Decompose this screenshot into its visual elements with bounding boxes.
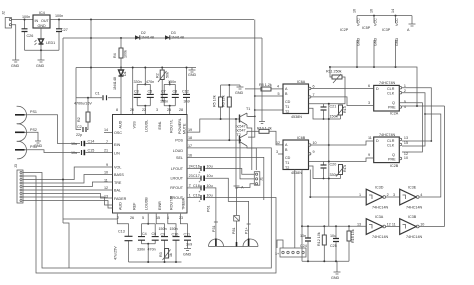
capacitor C16 <box>187 165 254 175</box>
wire IC3D to IC3E <box>386 196 400 198</box>
wire J3 p8 <box>23 197 113 205</box>
svg-text:1: 1 <box>359 193 361 197</box>
svg-text:GND: GND <box>36 64 45 68</box>
svg-text:R10 1.2k: R10 1.2k <box>257 127 272 131</box>
svg-text:2: 2 <box>189 184 191 188</box>
svg-text:10: 10 <box>104 171 108 175</box>
svg-text:14: 14 <box>104 128 108 132</box>
svg-text:C16: C16 <box>193 165 200 169</box>
svg-text:IC2P: IC2P <box>340 28 349 32</box>
svg-text:T2: T2 <box>285 110 289 114</box>
svg-text:IC3E: IC3E <box>408 186 417 190</box>
svg-text:C3: C3 <box>134 90 139 94</box>
svg-text:IC3D: IC3D <box>375 186 384 190</box>
power pin IC5P <box>362 16 378 67</box>
svg-text:BASS: BASS <box>114 173 124 177</box>
svg-text:26: 26 <box>130 216 134 220</box>
svg-text:PS2: PS2 <box>30 128 37 132</box>
svg-text:ROUT/L: ROUT/L <box>170 119 174 133</box>
svg-text:C6: C6 <box>152 232 157 236</box>
svg-text:5: 5 <box>404 100 406 104</box>
svg-text:3: 3 <box>156 108 158 112</box>
svg-text:OUT: OUT <box>41 19 50 23</box>
svg-text:R2: R2 <box>77 117 81 122</box>
svg-text:9: 9 <box>368 153 370 157</box>
svg-text:4: 4 <box>420 193 422 197</box>
svg-text:6: 6 <box>368 84 370 88</box>
svg-text:150n: 150n <box>168 80 176 84</box>
svg-text:VCC: VCC <box>395 18 399 26</box>
svg-text:16: 16 <box>353 9 357 13</box>
svg-text:R8 1.2k: R8 1.2k <box>259 83 272 87</box>
power pin IC3P <box>382 16 399 67</box>
capacitor C17 <box>187 174 249 224</box>
svg-text:C11: C11 <box>184 232 191 236</box>
pin P31 <box>212 222 218 246</box>
wire jack3 to C15 <box>28 150 80 153</box>
ground GND (T area) <box>235 85 244 95</box>
capacitor pair C7 C8 loop <box>160 80 179 114</box>
svg-text:IN: IN <box>35 19 39 23</box>
svg-text:VCC: VCC <box>374 18 378 26</box>
svg-text:10u: 10u <box>207 184 213 188</box>
svg-text:LED1: LED1 <box>46 41 55 45</box>
monostable IC6A <box>283 80 315 119</box>
diode D3 <box>165 31 184 40</box>
svg-text:150n: 150n <box>170 227 178 231</box>
svg-text:8: 8 <box>116 108 118 112</box>
svg-text:6: 6 <box>313 85 315 89</box>
svg-text:4700u/16V: 4700u/16V <box>74 102 92 106</box>
IC left pin labels <box>114 131 127 201</box>
IC top pin labels rotated <box>119 118 183 134</box>
svg-text:22: 22 <box>142 108 146 112</box>
svg-text:17: 17 <box>188 144 192 148</box>
svg-text:CLR: CLR <box>387 139 395 143</box>
svg-text:AUD: AUD <box>119 202 123 210</box>
wire rail1 drop <box>248 20 255 138</box>
ground (A) top right <box>407 16 416 32</box>
wire rail3 (cap rail) <box>76 67 196 69</box>
svg-text:D1: D1 <box>123 71 127 76</box>
svg-text:C17: C17 <box>193 174 200 178</box>
wire into IC3D <box>310 196 366 198</box>
svg-text:R4: R4 <box>113 53 117 58</box>
svg-text:1N4148: 1N4148 <box>113 77 117 90</box>
wire v327 <box>328 104 330 226</box>
svg-text:REF: REF <box>133 202 137 210</box>
wire IC6A B input <box>255 95 283 97</box>
svg-text:LOUD: LOUD <box>173 149 184 153</box>
capacitor C21 <box>309 104 342 120</box>
svg-text:VCC: VCC <box>357 18 361 26</box>
svg-text:C24: C24 <box>300 244 307 248</box>
wires 4538 bottom drops <box>295 170 311 249</box>
svg-text:470n: 470n <box>146 80 154 84</box>
svg-text:C20: C20 <box>330 163 337 167</box>
svg-text:LOUDL: LOUDL <box>145 120 149 132</box>
svg-text:470n: 470n <box>148 248 156 252</box>
wire VSS drop <box>132 68 134 115</box>
svg-text:12: 12 <box>276 141 280 145</box>
trimmer R14 <box>336 165 347 179</box>
svg-text:50k: 50k <box>166 72 170 78</box>
capacitor C9 <box>156 214 168 262</box>
resistor R2 <box>77 97 90 130</box>
svg-text:C25: C25 <box>330 244 337 248</box>
svg-text:Q: Q <box>392 101 395 105</box>
wire IC6B q to IC2B <box>311 141 374 145</box>
svg-text:9: 9 <box>313 150 315 154</box>
svg-text:IC2A: IC2A <box>390 112 399 116</box>
svg-text:C7: C7 <box>161 90 166 94</box>
svg-text:C10: C10 <box>172 232 179 236</box>
svg-text:4538N: 4538N <box>291 115 302 119</box>
svg-text:VSS: VSS <box>133 121 137 129</box>
svg-text:CD: CD <box>285 100 291 104</box>
svg-text:GND: GND <box>183 253 192 257</box>
capacitor C14 <box>71 140 112 147</box>
svg-text:1N4148: 1N4148 <box>171 35 184 39</box>
svg-text:10u: 10u <box>71 151 77 155</box>
capacitor pair C4 C6 loop <box>137 214 159 262</box>
svg-text:C8: C8 <box>173 90 178 94</box>
ground GND (LED1) <box>36 58 45 68</box>
pin P1+ <box>245 224 251 246</box>
diode D1 <box>113 68 127 115</box>
inverter IC3D <box>359 186 395 210</box>
capacitor C18 <box>187 184 216 222</box>
svg-text:R6 10k: R6 10k <box>221 95 225 107</box>
svg-text:11: 11 <box>368 136 372 140</box>
wire cap bottom bus <box>129 261 182 263</box>
svg-text:23: 23 <box>179 216 183 220</box>
svg-text:3: 3 <box>393 193 395 197</box>
svg-text:P31: P31 <box>212 225 216 232</box>
wire J4 left loop <box>277 240 283 248</box>
svg-text:16: 16 <box>188 153 192 157</box>
svg-text:9: 9 <box>106 163 108 167</box>
speaker left <box>209 239 259 246</box>
svg-text:330n: 330n <box>137 248 145 252</box>
svg-text:BAL: BAL <box>114 189 121 193</box>
svg-text:2: 2 <box>387 193 389 197</box>
svg-text:C14: C14 <box>88 140 95 144</box>
IC bottom pin labels rotated <box>119 196 186 210</box>
svg-text:5: 5 <box>278 92 280 96</box>
svg-text:15: 15 <box>156 216 160 220</box>
wire J3 p1 loop <box>23 148 271 268</box>
svg-text:GND: GND <box>374 37 378 46</box>
svg-text:ROUT/R: ROUT/R <box>170 196 174 210</box>
wire IC3B feedback loop <box>444 106 446 227</box>
wire J3 p3 <box>23 167 113 180</box>
svg-text:18: 18 <box>188 136 192 140</box>
resistor R8 <box>245 83 283 91</box>
transistor T1 <box>240 107 255 170</box>
svg-text:21: 21 <box>104 149 108 153</box>
svg-text:19: 19 <box>188 128 192 132</box>
svg-text:20: 20 <box>130 108 134 112</box>
svg-text:3n9: 3n9 <box>186 243 192 247</box>
inverter IC3E <box>400 186 423 210</box>
svg-text:C4: C4 <box>142 232 147 236</box>
svg-text:IC6B: IC6B <box>297 136 306 140</box>
svg-text:FADER: FADER <box>114 197 127 201</box>
capacitor C11 <box>180 214 192 247</box>
capacitor C2 <box>76 125 86 137</box>
svg-text:PRE: PRE <box>388 158 396 162</box>
capacitor pair C3 C5 loop <box>134 67 155 115</box>
wire pos pin18 to T2 base <box>187 139 240 141</box>
svg-text:TREBR: TREBR <box>182 197 186 210</box>
svg-text:LFOUT: LFOUT <box>171 167 184 171</box>
wire J3 p7 <box>23 194 113 199</box>
svg-text:1k: 1k <box>169 253 173 257</box>
flipflop IC2B <box>368 133 408 168</box>
svg-text:GND: GND <box>235 91 244 95</box>
power pin IC2P <box>340 16 361 67</box>
svg-text:100n: 100n <box>55 14 63 18</box>
svg-text:VOL: VOL <box>114 166 121 170</box>
svg-text:GND: GND <box>38 24 47 28</box>
capacitor C25 <box>330 226 339 261</box>
connector J2 <box>2 11 12 28</box>
svg-text:14: 14 <box>391 9 395 13</box>
wire v91 <box>90 20 92 98</box>
svg-text:C21: C21 <box>330 105 337 109</box>
svg-text:PRE: PRE <box>388 106 396 110</box>
svg-text:EINL: EINL <box>158 121 162 129</box>
capacitor C27 <box>56 20 68 51</box>
svg-text:10n: 10n <box>300 234 306 238</box>
wire IC3E out up <box>419 114 441 197</box>
capacitor C12 <box>182 67 190 115</box>
svg-text:LIN: LIN <box>114 152 120 156</box>
svg-text:CLR: CLR <box>387 87 395 91</box>
svg-text:C18: C18 <box>193 184 200 188</box>
svg-text:150n: 150n <box>160 100 168 104</box>
wire R5R6 top rail <box>221 84 240 86</box>
svg-text:15: 15 <box>404 141 408 145</box>
svg-text:10u: 10u <box>207 165 213 169</box>
wire J3 p6 <box>23 189 113 191</box>
resistor R10 <box>247 127 283 146</box>
svg-text:IC6A: IC6A <box>297 80 306 84</box>
svg-text:C2: C2 <box>77 125 82 129</box>
svg-text:7: 7 <box>313 93 315 97</box>
speaker right <box>243 239 258 246</box>
svg-text:RFOUT: RFOUT <box>170 186 183 190</box>
wire mute pin19 to T1 base <box>187 119 240 132</box>
resistor R12 <box>317 226 326 261</box>
wire J2 gnd <box>11 25 15 58</box>
svg-text:AUD: AUD <box>119 120 123 128</box>
svg-text:74HC14N: 74HC14N <box>406 235 423 239</box>
svg-text:C26: C26 <box>27 34 34 38</box>
svg-text:3: 3 <box>276 150 278 154</box>
wire IC4 out rail <box>50 19 254 21</box>
capacitor C13 <box>114 214 133 262</box>
wire IC6A q to IC2A <box>311 88 374 90</box>
svg-text:+: + <box>199 200 201 204</box>
capacitor C26 <box>22 20 34 51</box>
svg-text:D: D <box>376 139 379 143</box>
svg-text:13: 13 <box>404 136 408 140</box>
regulator IC4 <box>33 11 50 28</box>
svg-text:GND: GND <box>188 73 197 77</box>
svg-text:10u: 10u <box>207 194 213 198</box>
wire rail2 (diode rail) <box>63 37 262 39</box>
wire J3 p5 <box>23 182 113 187</box>
IC osc pin stub <box>104 132 112 134</box>
svg-text:Q: Q <box>392 153 395 157</box>
wire jack1 to C14 <box>28 115 80 144</box>
LED1 <box>35 28 56 58</box>
connector J4 <box>275 248 306 257</box>
power pins top rail <box>357 15 412 17</box>
svg-text:GND: GND <box>395 37 399 46</box>
svg-text:P1+: P1+ <box>245 227 249 234</box>
svg-text:J3: J3 <box>14 164 18 168</box>
svg-text:R14: R14 <box>343 165 347 172</box>
svg-text:GND: GND <box>11 64 20 68</box>
svg-text:TRE: TRE <box>114 181 122 185</box>
inverter IC3A <box>357 215 396 239</box>
svg-text:C13: C13 <box>118 230 125 234</box>
svg-text:1+: 1+ <box>275 252 279 256</box>
svg-text:74HC74N: 74HC74N <box>379 133 396 137</box>
ground GND (J2) <box>11 58 20 68</box>
svg-text:P61: P61 <box>207 205 211 212</box>
IC left pin numbers <box>104 128 108 199</box>
wire IC6B t to IC2B <box>342 158 374 162</box>
IC top pin numbers <box>116 108 183 112</box>
svg-text:C15: C15 <box>88 149 95 153</box>
wire rail2 start <box>62 38 64 223</box>
capacitor C24 <box>300 226 311 261</box>
trimmer R1 <box>156 67 170 102</box>
svg-text:C19: C19 <box>193 194 200 198</box>
svg-text:10u: 10u <box>71 142 77 146</box>
svg-text:T1: T1 <box>285 161 289 165</box>
svg-text:T1: T1 <box>246 107 250 111</box>
svg-text:GND: GND <box>357 37 361 46</box>
svg-text:IC3P: IC3P <box>382 28 391 32</box>
svg-text:R13: R13 <box>343 106 347 113</box>
svg-text:SEL: SEL <box>176 156 183 160</box>
svg-text:T2: T2 <box>285 166 289 170</box>
svg-text:R2: R2 <box>156 73 160 78</box>
flipflop IC2A <box>368 81 406 116</box>
svg-text:74HC14N: 74HC14N <box>372 235 389 239</box>
wire bottom rail 261 <box>302 226 349 261</box>
svg-text:CLK: CLK <box>387 92 395 96</box>
svg-text:4538N: 4538N <box>291 171 302 175</box>
svg-text:12: 12 <box>104 186 108 190</box>
capacitor C1 <box>74 92 121 106</box>
svg-text:100n: 100n <box>22 15 30 19</box>
ground GND bottom <box>331 261 341 280</box>
svg-text:MUTE: MUTE <box>183 123 187 134</box>
svg-text:POWERL: POWERL <box>178 118 182 134</box>
wire IC3A to IC3B <box>386 226 400 228</box>
trimmer R13 <box>336 105 347 119</box>
trimmer R3 <box>159 249 173 261</box>
svg-text:74HC14N: 74HC14N <box>406 206 423 210</box>
svg-text:74HC14N: 74HC14N <box>372 206 389 210</box>
svg-text:10: 10 <box>420 223 424 227</box>
svg-text:11: 11 <box>392 223 396 227</box>
svg-text:IC2B: IC2B <box>390 164 399 168</box>
pin P81 gnd <box>232 186 244 247</box>
svg-text:J1: J1 <box>260 177 264 181</box>
wires J1 <box>236 119 254 188</box>
wires IC2A outputs <box>402 88 432 141</box>
capacitor C19 <box>187 194 213 204</box>
resistor R5 <box>213 85 223 119</box>
svg-text:OSC: OSC <box>114 131 122 135</box>
svg-text:100k: 100k <box>124 50 128 58</box>
svg-text:POS: POS <box>175 139 183 143</box>
ground GND caps <box>183 247 192 257</box>
svg-text:10u: 10u <box>330 234 336 238</box>
capacitor C10 <box>168 214 180 262</box>
capacitor C15 <box>71 149 112 156</box>
connector J1 <box>254 172 263 186</box>
svg-text:P81: P81 <box>232 227 236 234</box>
IC right pin labels <box>170 123 187 200</box>
monostable IC6B <box>283 136 317 175</box>
wire J3 p9 <box>23 201 113 209</box>
svg-text:IC4: IC4 <box>39 11 45 15</box>
main IC box <box>113 115 188 214</box>
svg-text:CD: CD <box>285 156 291 160</box>
phono jack PS3 <box>15 141 37 159</box>
svg-text:PS1: PS1 <box>30 110 37 114</box>
svg-text:1: 1 <box>189 193 191 197</box>
node dots psu <box>24 19 26 21</box>
svg-text:22p: 22p <box>76 133 82 137</box>
svg-text:10: 10 <box>313 141 317 145</box>
svg-text:3n9: 3n9 <box>184 100 190 104</box>
svg-text:EINR: EINR <box>158 201 162 210</box>
svg-text:4: 4 <box>277 85 279 89</box>
svg-text:47u/25V: 47u/25V <box>114 246 118 260</box>
resistor R4 <box>113 38 128 68</box>
wire rail3 corner <box>76 68 81 130</box>
svg-text:28: 28 <box>179 108 183 112</box>
wire J2 to IC4 <box>11 19 33 21</box>
wire bottom rail 226 <box>302 225 366 227</box>
svg-text:GND: GND <box>331 276 340 280</box>
svg-text:16: 16 <box>370 9 374 13</box>
svg-text:C1: C1 <box>95 92 100 96</box>
svg-text:D: D <box>376 87 379 91</box>
wire +5 rail right <box>330 67 417 106</box>
resistor R16 <box>347 226 355 261</box>
wire J3 header <box>14 164 23 203</box>
svg-text:5: 5 <box>142 216 144 220</box>
svg-text:3: 3 <box>368 101 370 105</box>
wire J3 p2 loop <box>23 176 276 273</box>
svg-text:25: 25 <box>167 108 171 112</box>
svg-text:7: 7 <box>106 140 108 144</box>
svg-text:R12 10k: R12 10k <box>317 232 321 246</box>
svg-text:10u: 10u <box>207 174 213 178</box>
svg-text:C27: C27 <box>61 28 68 32</box>
svg-text:IC3B: IC3B <box>408 215 417 219</box>
